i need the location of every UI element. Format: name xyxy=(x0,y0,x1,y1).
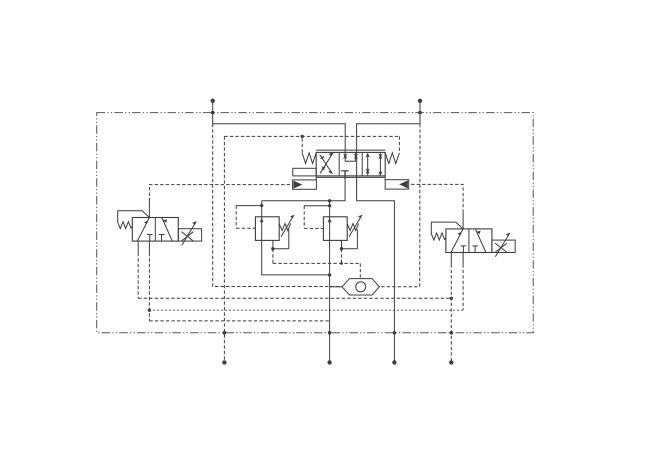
node P (top port 1) xyxy=(211,99,215,103)
port 3 (bottom) xyxy=(393,331,397,335)
V1 left box crossed arrows xyxy=(320,153,333,174)
V1 right spring xyxy=(385,153,399,164)
blocked port T1 xyxy=(461,245,467,247)
wire B from valve to port 3 (solid) xyxy=(357,152,395,362)
drain collector to shuttle (dashed) xyxy=(273,249,360,279)
spring + adjusting arrow xyxy=(279,224,290,231)
blocked port T1 xyxy=(147,234,153,236)
right box flow arrow xyxy=(162,218,173,242)
enclosure boundary (dash-dot-dot) xyxy=(97,113,534,333)
relief valve RV2 (right) xyxy=(304,204,362,250)
junction dot P on boundary xyxy=(211,111,215,115)
port 4 (bottom, dashed) xyxy=(450,331,454,335)
V1 right pilot box with hydraulic triangle xyxy=(385,180,409,189)
pilot supply line from P to shuttle (dashed) xyxy=(213,124,342,287)
proportional marking line bottom xyxy=(316,176,385,178)
port 2 (bottom) xyxy=(328,331,332,335)
V1 left spring xyxy=(302,153,316,164)
proportional solenoid box xyxy=(492,240,515,252)
left box flow arrow xyxy=(137,218,149,242)
junction dot on drain line xyxy=(301,135,304,138)
wire left relief leg (solid) xyxy=(262,201,330,275)
SV2 bottom port lines (solid stubs then dashed) xyxy=(450,253,452,265)
blocked port T2 xyxy=(159,234,165,236)
port 1 (bottom, dashed) xyxy=(223,331,227,335)
junction dot A-line / RV2 xyxy=(328,199,331,202)
wire right relief leg / port 2 (solid) xyxy=(329,201,331,363)
main valve V1 body xyxy=(316,152,385,176)
left box flow arrow xyxy=(451,229,463,253)
relief valve RV1 (left) xyxy=(236,204,294,251)
SV1 bottom port lines (solid stubs then dashed) xyxy=(137,241,139,253)
drain loop xyxy=(342,240,358,248)
V1 right box parallel arrows xyxy=(366,153,382,176)
drain loop xyxy=(273,240,289,248)
wire P supply (solid) xyxy=(213,101,346,153)
junction dot SV lines xyxy=(450,297,453,300)
wire A from valve to left relief (solid) xyxy=(262,179,345,201)
proportional solenoid box xyxy=(178,229,201,241)
V1 left gain box xyxy=(293,168,316,176)
blocked port T2 xyxy=(472,245,478,247)
proportional marking line top xyxy=(316,149,385,151)
wire stub to shuttle left port xyxy=(330,286,342,288)
pilot valve SV1 to main valve left pilot (dashed) xyxy=(148,201,150,217)
spring with anchor flag xyxy=(431,222,463,240)
pilot line T to shuttle right (dashed) xyxy=(379,124,420,287)
shuttle valve SH1 xyxy=(342,279,379,295)
V1 left pilot box with hydraulic triangle xyxy=(293,180,317,189)
pilot valve SV2 to main valve right pilot (dashed) xyxy=(462,213,464,229)
pilot sense line xyxy=(236,205,262,207)
pilot sense line xyxy=(304,205,329,207)
pilot valve SV2 (right, proportional reducing valve) xyxy=(431,222,515,257)
pilot valve SV1 (left, proportional reducing valve) xyxy=(118,211,202,246)
spring with anchor flag xyxy=(118,211,150,229)
junction dot T on boundary xyxy=(418,111,422,115)
V1 centre box: orifices, bridge and blocked A xyxy=(341,152,357,179)
wire T return (solid) xyxy=(357,101,420,153)
junction dot RV1 output / port2 line xyxy=(328,273,331,276)
right box flow arrow xyxy=(475,229,486,253)
pilot drain line to spring chambers (dashed) xyxy=(224,136,399,362)
node T (top port 2) xyxy=(418,99,422,103)
spring + adjusting arrow xyxy=(347,224,358,231)
